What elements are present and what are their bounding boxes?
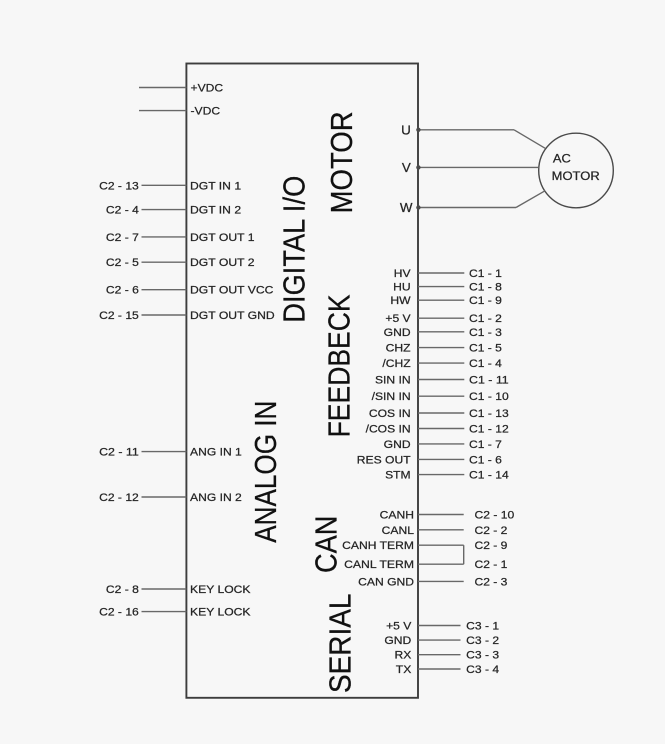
svg-text:C3 - 1: C3 - 1 [466, 621, 499, 633]
svg-text:SIN IN: SIN IN [375, 375, 411, 387]
svg-text:HV: HV [394, 268, 411, 280]
svg-text:C1 - 5: C1 - 5 [469, 343, 502, 355]
svg-text:CAN: CAN [309, 516, 344, 574]
svg-text:FEEDBECK: FEEDBECK [321, 294, 356, 437]
svg-text:U: U [401, 123, 411, 137]
svg-text:GND: GND [384, 439, 411, 451]
svg-text:DIGITAL I/O: DIGITAL I/O [276, 176, 311, 323]
svg-text:GND: GND [384, 635, 411, 647]
svg-text:C2 - 16: C2 - 16 [99, 607, 139, 619]
svg-text:W: W [400, 201, 413, 215]
svg-text:C2 - 8: C2 - 8 [106, 584, 139, 596]
svg-text:C2 - 10: C2 - 10 [475, 510, 515, 522]
svg-text:+5 V: +5 V [386, 621, 412, 633]
svg-text:/SIN IN: /SIN IN [372, 391, 411, 403]
svg-text:CANL TERM: CANL TERM [344, 559, 414, 571]
svg-text:C1 - 1: C1 - 1 [469, 268, 502, 280]
svg-text:/CHZ: /CHZ [382, 358, 410, 370]
svg-text:C2 - 2: C2 - 2 [475, 525, 508, 537]
svg-text:-VDC: -VDC [191, 106, 221, 118]
svg-text:C1 - 14: C1 - 14 [469, 470, 509, 482]
svg-text:MOTOR: MOTOR [324, 111, 359, 213]
svg-text:C2 - 15: C2 - 15 [99, 310, 139, 322]
svg-text:ANG IN 1: ANG IN 1 [190, 447, 242, 459]
svg-text:C1 - 4: C1 - 4 [469, 358, 502, 370]
svg-text:DGT OUT VCC: DGT OUT VCC [190, 285, 273, 297]
svg-text:C2 - 4: C2 - 4 [106, 205, 139, 217]
svg-text:C1 - 8: C1 - 8 [469, 282, 502, 294]
svg-text:KEY LOCK: KEY LOCK [190, 584, 251, 596]
svg-text:COS IN: COS IN [369, 408, 411, 420]
svg-text:C2 - 1: C2 - 1 [475, 559, 508, 571]
svg-text:HU: HU [393, 282, 411, 294]
svg-text:C1 - 13: C1 - 13 [469, 408, 509, 420]
svg-text:CANL: CANL [382, 525, 414, 537]
svg-text:MOTOR: MOTOR [552, 169, 600, 183]
svg-text:CANH: CANH [380, 510, 414, 522]
svg-text:V: V [402, 161, 412, 175]
svg-text:C2 - 12: C2 - 12 [99, 492, 139, 504]
svg-text:+5 V: +5 V [385, 313, 411, 325]
svg-text:DGT OUT GND: DGT OUT GND [190, 310, 275, 322]
svg-text:C1 - 10: C1 - 10 [469, 391, 509, 403]
svg-text:DGT IN 2: DGT IN 2 [190, 205, 241, 217]
svg-text:/COS IN: /COS IN [366, 424, 411, 436]
svg-text:C3 - 3: C3 - 3 [466, 650, 499, 662]
svg-text:DGT IN 1: DGT IN 1 [190, 180, 241, 192]
svg-text:CAN GND: CAN GND [358, 576, 414, 588]
svg-text:C2 - 9: C2 - 9 [475, 540, 508, 552]
svg-text:KEY LOCK: KEY LOCK [190, 607, 251, 619]
svg-text:SERIAL: SERIAL [323, 594, 358, 694]
svg-text:C2 - 11: C2 - 11 [99, 447, 139, 459]
svg-text:CANH TERM: CANH TERM [342, 540, 414, 552]
svg-text:GND: GND [384, 327, 411, 339]
svg-text:C1 - 7: C1 - 7 [469, 439, 502, 451]
svg-text:C2 - 6: C2 - 6 [106, 285, 139, 297]
svg-text:HW: HW [390, 295, 411, 307]
svg-text:+VDC: +VDC [191, 83, 224, 95]
svg-text:C1 - 2: C1 - 2 [469, 313, 502, 325]
svg-text:C1 - 3: C1 - 3 [469, 327, 502, 339]
svg-text:RX: RX [395, 650, 412, 662]
svg-text:RES OUT: RES OUT [357, 454, 411, 466]
svg-text:AC: AC [553, 152, 571, 166]
svg-text:C3 - 2: C3 - 2 [466, 635, 499, 647]
svg-text:C3 - 4: C3 - 4 [466, 664, 499, 676]
svg-text:C2 - 7: C2 - 7 [106, 232, 139, 244]
svg-text:ANALOG IN: ANALOG IN [248, 401, 283, 543]
svg-text:STM: STM [385, 470, 411, 482]
svg-text:CHZ: CHZ [386, 343, 411, 355]
svg-text:C1 - 9: C1 - 9 [469, 295, 502, 307]
svg-text:DGT OUT 2: DGT OUT 2 [190, 257, 255, 269]
svg-text:C2 - 5: C2 - 5 [106, 257, 139, 269]
svg-text:C2 - 13: C2 - 13 [99, 180, 139, 192]
svg-text:TX: TX [396, 664, 412, 676]
svg-text:C1 - 11: C1 - 11 [469, 375, 509, 387]
svg-text:ANG IN 2: ANG IN 2 [190, 492, 242, 504]
svg-text:C1 - 6: C1 - 6 [469, 454, 502, 466]
svg-text:C2 - 3: C2 - 3 [475, 576, 508, 588]
svg-text:C1 - 12: C1 - 12 [469, 424, 509, 436]
svg-text:DGT OUT 1: DGT OUT 1 [190, 232, 255, 244]
